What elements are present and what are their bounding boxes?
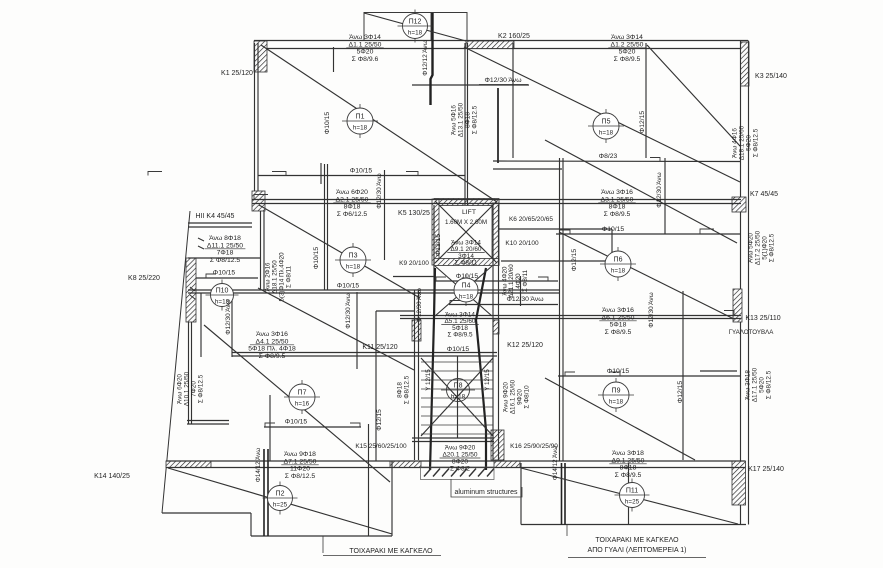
svg-text:Δ7.1 25/50: Δ7.1 25/50 xyxy=(284,458,317,465)
wire P6 room left wall xyxy=(560,158,564,461)
svg-text:Άνω 3Φ18: Άνω 3Φ18 xyxy=(612,450,644,457)
svg-text:Άνω 3Φ16: Άνω 3Φ16 xyxy=(601,189,633,196)
svg-text:Φ10/15: Φ10/15 xyxy=(313,247,320,270)
wire phi10/15 line P6 top xyxy=(556,233,741,235)
slab label P10 xyxy=(206,280,239,311)
svg-text:Φ12/30 Άνω: Φ12/30 Άνω xyxy=(345,293,352,328)
svg-text:Δ1.2 25/50: Δ1.2 25/50 xyxy=(611,41,644,48)
wire hook line top-left xyxy=(333,47,335,72)
wire annex room divider xyxy=(188,257,261,259)
wire stairwell left wall xyxy=(415,290,419,460)
svg-text:Σ Φ6/12.5: Σ Φ6/12.5 xyxy=(337,211,368,218)
svg-text:h=18: h=18 xyxy=(599,130,614,137)
wire balcony right left edge xyxy=(520,463,522,525)
svg-text:5(1)Φ20: 5(1)Φ20 xyxy=(762,236,769,260)
svg-text:Δ4.1 25/50: Δ4.1 25/50 xyxy=(256,338,289,345)
svg-text:8Φ18: 8Φ18 xyxy=(620,465,637,472)
wall stair top-left block xyxy=(412,320,421,341)
wire vertical x513 xyxy=(512,43,514,158)
wall lift left xyxy=(432,199,439,265)
svg-text:Φ12/12 Άνω: Φ12/12 Άνω xyxy=(422,40,429,75)
wire left outer slanted edge xyxy=(162,211,190,513)
svg-text:Φ12/15: Φ12/15 xyxy=(571,249,578,272)
svg-text:Υ 12/15: Υ 12/15 xyxy=(484,369,491,391)
wall K7 xyxy=(732,197,746,212)
svg-text:Φ12/30 Άνω: Φ12/30 Άνω xyxy=(656,172,663,207)
svg-text:Φ12/30 Άνω: Φ12/30 Άνω xyxy=(376,173,383,208)
svg-text:Κ12 25/120: Κ12 25/120 xyxy=(507,342,543,349)
svg-text:Κ6 20/65/20/65: Κ6 20/65/20/65 xyxy=(509,216,553,223)
wire annex right wall xyxy=(261,211,265,290)
wire short line left of P4 room xyxy=(393,276,434,278)
svg-text:Φ10/15: Φ10/15 xyxy=(285,419,308,426)
svg-text:h=18: h=18 xyxy=(451,394,466,401)
wire top protrusion outline xyxy=(364,13,467,42)
wire K11 vertical xyxy=(356,292,358,369)
wire annex top boundary xyxy=(188,223,252,227)
wire diagonal P4 room a xyxy=(435,266,492,316)
svg-text:Σ Φ8/12.5: Σ Φ8/12.5 xyxy=(769,233,776,262)
svg-text:LIFT: LIFT xyxy=(462,209,476,216)
wire diagonal P3 to stairwell xyxy=(258,288,414,370)
wire K10 line xyxy=(501,260,612,262)
wire lift X diagonal 2 xyxy=(435,201,497,263)
svg-text:5Φ20: 5Φ20 xyxy=(759,377,766,393)
svg-text:Δ6.1 25/50: Δ6.1 25/50 xyxy=(602,314,635,321)
slab label P4 xyxy=(449,274,483,306)
wire right wall xyxy=(741,41,749,525)
wire diagonal steep top-right xyxy=(647,45,740,146)
svg-text:Π3: Π3 xyxy=(349,253,358,260)
svg-text:Σ Φ8/9.5: Σ Φ8/9.5 xyxy=(259,353,286,360)
wire diagonal balcony left xyxy=(168,468,392,534)
svg-text:Φ10/15: Φ10/15 xyxy=(350,168,373,175)
wire vertical x683 xyxy=(682,291,684,460)
svg-text:Σ Φ8/9.5: Σ Φ8/9.5 xyxy=(614,56,641,63)
wire second line below phi8/23 xyxy=(493,168,562,170)
wire diagonal P1 room xyxy=(261,45,497,202)
svg-text:Φ12/30 Άνω: Φ12/30 Άνω xyxy=(506,296,544,303)
wire balcony left right edge xyxy=(391,461,393,536)
svg-text:h=18: h=18 xyxy=(611,268,626,275)
svg-text:Υ 12/15: Υ 12/15 xyxy=(425,369,432,391)
svg-text:Σ Φ8/12.5: Σ Φ8/12.5 xyxy=(210,257,241,264)
svg-text:ΑΠΟ ΓΥΑΛΙ (ΛΕΠΤΟΜΕΡΕΙΑ 1): ΑΠΟ ΓΥΑΛΙ (ΛΕΠΤΟΜΕΡΕΙΑ 1) xyxy=(588,547,687,554)
svg-text:Κ17 25/140: Κ17 25/140 xyxy=(748,466,784,473)
svg-text:Φ10/15: Φ10/15 xyxy=(324,112,331,135)
rebar stair bent bar left xyxy=(430,268,435,470)
wire diagonal protrusion xyxy=(364,13,466,41)
wire main bottom beam xyxy=(166,461,745,468)
svg-text:5Φ20: 5Φ20 xyxy=(746,135,753,151)
svg-text:Σ Φ8/11: Σ Φ8/11 xyxy=(455,260,478,267)
wire small room vertical b xyxy=(231,293,233,357)
svg-text:Σ Φ8/9.5: Σ Φ8/9.5 xyxy=(615,472,642,479)
wire stair diagonal 2 xyxy=(421,358,493,436)
svg-text:Δ11.1 25/50: Δ11.1 25/50 xyxy=(207,242,243,249)
svg-text:Κ3 25/140: Κ3 25/140 xyxy=(755,73,787,80)
wire vertical x520 segment xyxy=(520,276,522,306)
svg-text:Φ10/15: Φ10/15 xyxy=(602,226,625,233)
wire diagonal upper P6 xyxy=(545,140,737,243)
rebar bar phi12/12 top xyxy=(431,13,433,105)
svg-text:h=18: h=18 xyxy=(408,30,423,37)
wire stair treads xyxy=(421,362,493,434)
svg-text:Δ9.1 25/50: Δ9.1 25/50 xyxy=(612,457,645,464)
svg-text:Σ Φ8/10: Σ Φ8/10 xyxy=(524,385,531,409)
svg-text:5(3)Φ14 Πλ.4Φ20: 5(3)Φ14 Πλ.4Φ20 xyxy=(279,252,286,302)
svg-text:Φ10/15: Φ10/15 xyxy=(447,346,470,353)
svg-text:8Φ18: 8Φ18 xyxy=(397,382,404,398)
wire phi8/23 line xyxy=(493,160,741,163)
wire beam over stairs xyxy=(232,353,497,357)
svg-text:Φ12/15: Φ12/15 xyxy=(376,409,383,431)
svg-text:Φ12/15: Φ12/15 xyxy=(677,381,684,404)
svg-text:ΤΟΙΧΑΡΑΚΙ ΜΕ ΚΑΓΚΕΛΟ: ΤΟΙΧΑΡΑΚΙ ΜΕ ΚΑΓΚΕΛΟ xyxy=(595,537,679,544)
wire hook line a xyxy=(320,163,322,184)
svg-text:Φ10/15: Φ10/15 xyxy=(607,368,630,375)
slab label P12 xyxy=(398,10,433,43)
svg-text:ΓΥΑΛΟΤΟΥΒΛΑ: ΓΥΑΛΟΤΟΥΒΛΑ xyxy=(729,329,775,336)
svg-text:Π6: Π6 xyxy=(614,257,623,264)
svg-text:ΗΙΙ Κ4 45/45: ΗΙΙ Κ4 45/45 xyxy=(196,213,235,220)
wire beam D5.1/D6.1 line xyxy=(400,316,741,319)
wall K3 xyxy=(741,42,750,86)
svg-text:Φ12/30 Άνω: Φ12/30 Άνω xyxy=(416,288,423,322)
svg-text:Σ Φ8/9.5: Σ Φ8/9.5 xyxy=(604,211,631,218)
wire balcony right internal vertical xyxy=(628,463,630,525)
wall lift bottom xyxy=(434,259,499,266)
label parapet left xyxy=(323,536,441,556)
slab label P7 xyxy=(284,380,320,414)
svg-text:5Φ20: 5Φ20 xyxy=(357,49,374,56)
wire left wall below annex xyxy=(189,322,192,424)
svg-text:Δ13.1 25/50: Δ13.1 25/50 xyxy=(458,102,465,137)
wire diagonal P9 room xyxy=(545,378,695,460)
wire top main beam xyxy=(254,41,748,49)
wire protrusion inner verticals xyxy=(430,13,432,42)
slab label P2 xyxy=(263,482,298,515)
slab label P5 xyxy=(588,109,624,143)
wire vertical x612 xyxy=(611,229,613,261)
wire wall P1/P3 divider xyxy=(325,164,328,290)
rebar phi14/12 bar bottom-right xyxy=(562,463,566,525)
svg-text:Φ10/15: Φ10/15 xyxy=(337,283,360,290)
svg-text:Άνω 6Φ20: Άνω 6Φ20 xyxy=(177,374,184,404)
wire main mid beam line xyxy=(188,290,559,293)
svg-text:Δ17.1 25/50: Δ17.1 25/50 xyxy=(752,367,759,402)
svg-text:Π4: Π4 xyxy=(462,283,471,290)
wire diagonal P6 room xyxy=(559,232,734,319)
wire stair bottom lines xyxy=(412,438,494,442)
slab label P9 xyxy=(598,378,634,412)
svg-text:Κ14 140/25: Κ14 140/25 xyxy=(94,473,130,480)
svg-text:9Φ20: 9Φ20 xyxy=(517,389,524,405)
svg-text:Π9: Π9 xyxy=(612,388,621,395)
svg-text:Φ8/23: Φ8/23 xyxy=(599,153,618,160)
svg-text:Άνω 2Φ16: Άνω 2Φ16 xyxy=(265,262,272,291)
wire phi10/15 line upper-left xyxy=(258,175,465,177)
slab label P8 xyxy=(441,379,475,402)
svg-text:h=18: h=18 xyxy=(346,264,361,271)
wire diagonal P3 room xyxy=(259,205,420,298)
svg-text:Κ5 130/25: Κ5 130/25 xyxy=(398,210,430,217)
wire short line left of stairwell xyxy=(376,310,414,312)
svg-text:Π7: Π7 xyxy=(298,390,307,397)
svg-text:Φ14/12 Άνω: Φ14/12 Άνω xyxy=(255,448,262,482)
wall bottom beam hatch right of stairs xyxy=(494,461,520,468)
svg-text:7Φ20: 7Φ20 xyxy=(191,381,198,397)
svg-text:Σ Φ8/12.5: Σ Φ8/12.5 xyxy=(198,374,205,403)
svg-text:Άνω 3Φ14: Άνω 3Φ14 xyxy=(349,34,381,41)
svg-text:Σ Φ8/11: Σ Φ8/11 xyxy=(286,265,293,288)
svg-text:8Φ18: 8Φ18 xyxy=(465,112,472,128)
svg-text:Φ12/30 Άνω: Φ12/30 Άνω xyxy=(648,292,655,327)
wire diagonal balcony right xyxy=(521,468,738,524)
wire phi12/30 top line xyxy=(412,84,529,86)
svg-text:Π10: Π10 xyxy=(216,288,229,295)
svg-text:1.60Μ Χ 2.60Μ: 1.60Μ Χ 2.60Μ xyxy=(445,219,487,226)
svg-text:Άνω 4Φ16: Άνω 4Φ16 xyxy=(732,128,739,158)
wire line below P4 xyxy=(449,304,558,306)
wire balcony internal vertical xyxy=(368,424,370,536)
svg-text:Σ Φ8/9.6: Σ Φ8/9.6 xyxy=(352,56,379,63)
wire lift X diagonal 1 xyxy=(435,201,497,263)
svg-text:Σ Φ8/11: Σ Φ8/11 xyxy=(522,269,529,292)
svg-text:Δ2.1 25/50: Δ2.1 25/50 xyxy=(336,196,369,203)
wall K17 xyxy=(732,461,746,505)
wire phi10/15 annex line xyxy=(196,277,258,279)
svg-text:Σ Φ8/12.5: Σ Φ8/12.5 xyxy=(472,105,479,134)
wire vertical left of stairwell xyxy=(375,311,377,461)
svg-text:Κ15 25/60/25/100: Κ15 25/60/25/100 xyxy=(355,443,407,450)
slab label P6 xyxy=(600,247,636,281)
wire left room bottom line xyxy=(187,421,229,425)
wire lift-stair right wall xyxy=(493,205,499,460)
svg-text:h=18: h=18 xyxy=(353,125,368,132)
svg-text:Κ13 25/110: Κ13 25/110 xyxy=(745,315,780,322)
svg-text:Σ Φ8/2: Σ Φ8/2 xyxy=(450,466,470,473)
wall bottom beam hatch middle xyxy=(390,461,421,468)
wire phi10/15 line P4 room xyxy=(434,280,558,282)
svg-text:Φ12/15: Φ12/15 xyxy=(639,111,646,134)
rebar bar x498 upper xyxy=(497,88,499,163)
svg-text:Άνω 5Φ16: Άνω 5Φ16 xyxy=(451,105,458,135)
wall bottom beam hatch K14 xyxy=(166,461,211,468)
svg-text:Σ Φ8/9.5: Σ Φ8/9.5 xyxy=(447,332,472,339)
wire diagonal P7 room xyxy=(204,325,390,482)
wire balcony left step line xyxy=(162,512,251,514)
wire vertical x646 upper xyxy=(645,43,647,158)
svg-text:8Φ18: 8Φ18 xyxy=(609,204,626,211)
svg-text:Φ14/12 Άνω: Φ14/12 Άνω xyxy=(552,446,559,480)
wire beam D2.1/D3.1 line xyxy=(252,200,741,204)
svg-text:11Φ20: 11Φ20 xyxy=(290,466,310,473)
wire diagonal P5 room long xyxy=(464,47,740,182)
wire balcony left bottom line xyxy=(251,535,392,537)
wire stair diagonal 1 xyxy=(421,358,493,436)
label parapet right leader xyxy=(566,525,568,537)
svg-text:Φ12/15: Φ12/15 xyxy=(435,234,442,257)
wire wall right of protrusion xyxy=(465,43,468,205)
svg-text:Φ12/30 Άνω: Φ12/30 Άνω xyxy=(225,299,232,334)
svg-text:h=16: h=16 xyxy=(295,401,310,408)
wire small hooks xyxy=(148,158,734,428)
svg-text:Δ10.1 25/50: Δ10.1 25/50 xyxy=(184,371,191,406)
svg-text:8Φ18: 8Φ18 xyxy=(344,204,361,211)
svg-text:Άνω 5Φ20: Άνω 5Φ20 xyxy=(748,233,755,263)
rebar stair bent bar right xyxy=(476,268,486,470)
wire balcony right bottom line xyxy=(521,524,746,526)
svg-text:Σ Φ8/12.5: Σ Φ8/12.5 xyxy=(285,473,316,480)
svg-text:5Φ18 Πλ. 4Φ18: 5Φ18 Πλ. 4Φ18 xyxy=(248,346,296,353)
svg-text:Φ10/15: Φ10/15 xyxy=(456,273,479,280)
hatch strip aluminium structures roof xyxy=(424,469,494,477)
svg-text:Άνω 6Φ20: Άνω 6Φ20 xyxy=(336,189,368,196)
svg-text:Κ2 160/25: Κ2 160/25 xyxy=(498,33,530,40)
svg-text:Π5: Π5 xyxy=(602,119,611,126)
rebar phi14/12 bar bottom-left xyxy=(264,449,268,536)
svg-text:Άνω 9Φ20: Άνω 9Φ20 xyxy=(445,445,476,452)
svg-text:Κ9 20/100: Κ9 20/100 xyxy=(399,260,429,267)
svg-text:h=25: h=25 xyxy=(273,502,288,509)
svg-text:7Φ18: 7Φ18 xyxy=(217,250,234,257)
slab label P1 xyxy=(342,104,378,138)
wire small room vertical a xyxy=(200,293,202,357)
svg-text:Κ11 25/120: Κ11 25/120 xyxy=(362,344,397,351)
svg-text:h=25: h=25 xyxy=(625,499,640,506)
wall K1 xyxy=(254,41,267,72)
svg-text:Άνω 3Φ18: Άνω 3Φ18 xyxy=(745,370,752,400)
svg-text:h=18: h=18 xyxy=(459,294,474,301)
wall corner block annex xyxy=(252,191,265,211)
svg-text:Σ Φ8/9.5: Σ Φ8/9.5 xyxy=(605,329,632,336)
wire diagonal P4 room b xyxy=(435,266,492,316)
wire vertical x665 xyxy=(664,158,666,234)
svg-text:Δ18.1 25/50: Δ18.1 25/50 xyxy=(272,260,279,294)
svg-text:Π12: Π12 xyxy=(409,19,422,26)
svg-text:Δ16.1 25/60: Δ16.1 25/60 xyxy=(510,379,517,414)
svg-text:Σ Φ8/12.5: Σ Φ8/12.5 xyxy=(766,370,773,399)
svg-text:Σ Φ8/12.5: Σ Φ8/12.5 xyxy=(404,375,411,404)
wall K2 xyxy=(466,41,514,49)
svg-text:Δ1.1 25/50: Δ1.1 25/50 xyxy=(349,41,382,48)
wall K13 xyxy=(733,289,742,322)
wire phi12/30 vertical line xyxy=(384,170,386,260)
svg-text:Άνω 9Φ18: Άνω 9Φ18 xyxy=(284,451,316,458)
svg-text:Άνω 3Φ14: Άνω 3Φ14 xyxy=(611,34,643,41)
svg-text:Άνω 3Φ16: Άνω 3Φ16 xyxy=(602,307,634,314)
svg-text:Κ1 25/120: Κ1 25/120 xyxy=(221,70,253,77)
wire left wall upper xyxy=(255,43,259,200)
svg-text:Δ18.1 25/60: Δ18.1 25/60 xyxy=(739,125,746,160)
svg-text:Κ10 20/100: Κ10 20/100 xyxy=(505,240,539,247)
svg-text:Π8: Π8 xyxy=(454,383,463,390)
svg-text:Φ12/30 Άνω: Φ12/30 Άνω xyxy=(484,77,522,84)
wall K8 xyxy=(186,258,196,322)
svg-text:Δ17.2 25/50: Δ17.2 25/50 xyxy=(755,230,762,265)
svg-text:Φ10/15: Φ10/15 xyxy=(213,270,236,277)
svg-text:Π11: Π11 xyxy=(626,488,638,495)
wall K16 xyxy=(491,430,504,460)
wall lift top / K5 xyxy=(434,199,499,206)
slab label P3 xyxy=(335,243,371,277)
wall stair top-right block xyxy=(493,320,499,334)
wire phi10/15 line P9 room xyxy=(558,375,741,377)
wire phi10/15 line P7 room xyxy=(264,426,361,428)
wire K6 line xyxy=(499,228,612,230)
svg-text:5Φ20: 5Φ20 xyxy=(619,49,636,56)
svg-text:Άνω 3Φ16: Άνω 3Φ16 xyxy=(256,331,288,338)
svg-text:Άνω 9Φ20: Άνω 9Φ20 xyxy=(503,382,510,412)
svg-text:Σ Φ8/12.5: Σ Φ8/12.5 xyxy=(753,128,760,157)
svg-text:Κ7 45/45: Κ7 45/45 xyxy=(750,191,778,198)
wire tick marks near K8 xyxy=(190,238,204,299)
svg-text:5Φ18: 5Φ18 xyxy=(610,322,627,329)
slab label P11 xyxy=(615,479,650,512)
svg-text:Άνω 8Φ18: Άνω 8Φ18 xyxy=(209,235,241,242)
svg-text:Π1: Π1 xyxy=(356,114,365,121)
wire stair mid divider xyxy=(457,356,459,438)
svg-text:ΤΟΙΧΑΡΑΚΙ ΜΕ ΚΑΓΚΕΛΟ: ΤΟΙΧΑΡΑΚΙ ΜΕ ΚΑΓΚΕΛΟ xyxy=(349,548,433,555)
svg-text:Κ8 25/220: Κ8 25/220 xyxy=(128,275,160,282)
svg-text:Π2: Π2 xyxy=(276,491,285,498)
wire vertical below P7 xyxy=(269,395,271,461)
svg-text:h=18: h=18 xyxy=(609,399,624,406)
svg-text:Δ20.1 25/50: Δ20.1 25/50 xyxy=(442,452,477,459)
wire aluminium label box xyxy=(451,479,522,497)
wire balcony left step vertical xyxy=(250,513,252,536)
svg-text:8Φ20: 8Φ20 xyxy=(452,459,468,466)
wall lift right xyxy=(492,203,499,265)
wire lift left wall line continue xyxy=(433,205,435,320)
svg-text:aluminum structures: aluminum structures xyxy=(454,489,518,496)
svg-text:Δ3.1 25/50: Δ3.1 25/50 xyxy=(601,196,634,203)
